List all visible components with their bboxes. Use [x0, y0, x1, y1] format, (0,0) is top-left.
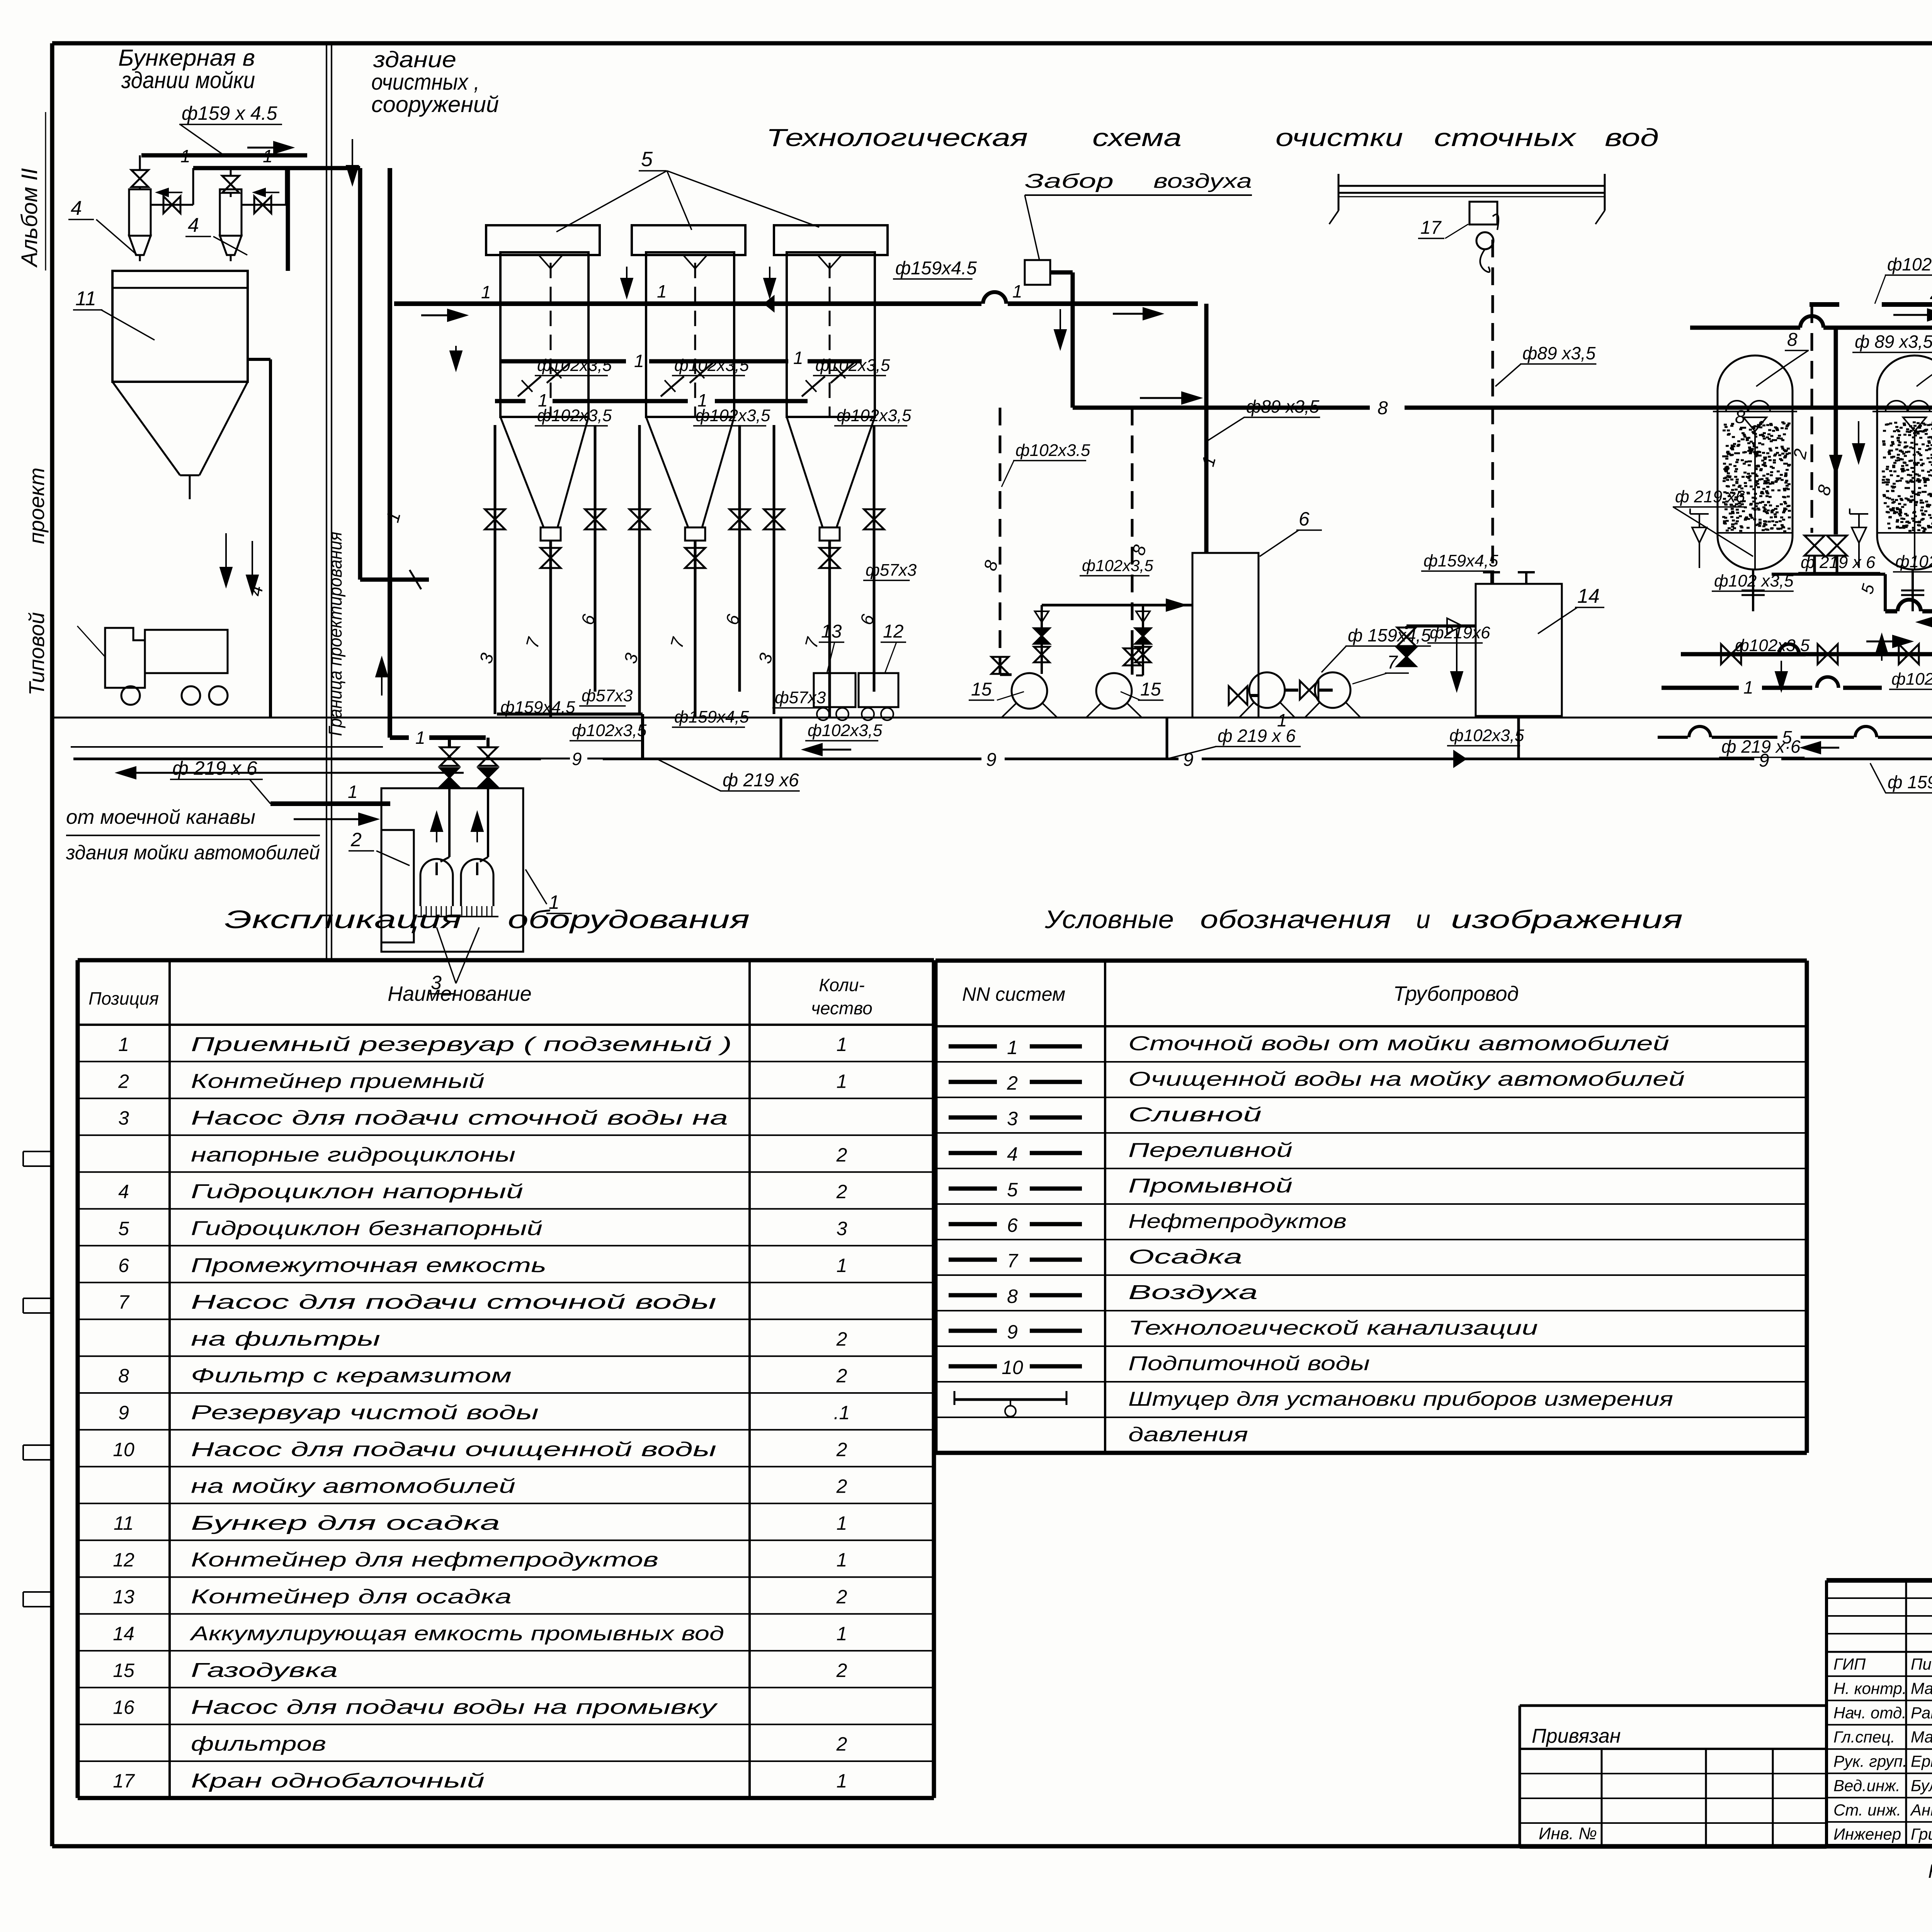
svg-text:2: 2 [836, 1586, 847, 1608]
svg-text:ф102 х3,5: ф102 х3,5 [1714, 571, 1794, 590]
svg-text:17: 17 [1420, 218, 1442, 238]
svg-text:Сточной воды от мойки авто: Сточной воды от мойки автомобилей [1128, 1032, 1669, 1055]
svg-text:13: 13 [821, 621, 842, 642]
svg-text:1: 1 [415, 728, 425, 748]
svg-text:1: 1 [793, 348, 803, 368]
svg-text:1: 1 [263, 146, 273, 166]
svg-text:Граница проектирования: Граница проектирования [325, 532, 346, 736]
svg-text:2: 2 [836, 1660, 847, 1681]
svg-text:9: 9 [1007, 1321, 1018, 1343]
svg-text:Н. контр.: Н. контр. [1833, 1679, 1907, 1697]
svg-text:оборудования: оборудования [508, 905, 750, 934]
svg-text:4: 4 [71, 197, 82, 219]
svg-text:8: 8 [1007, 1286, 1018, 1307]
svg-text:ф102х3,5: ф102х3,5 [837, 406, 912, 425]
svg-text:ф102х3,5: ф102х3,5 [808, 721, 883, 740]
svg-text:7: 7 [1387, 652, 1398, 673]
svg-text:15: 15 [113, 1660, 134, 1681]
svg-text:очистки: очистки [1276, 124, 1403, 151]
svg-text:Технологической канализации: Технологической канализации [1128, 1317, 1538, 1339]
svg-text:3: 3 [837, 1218, 847, 1240]
svg-text:Вед.инж.: Вед.инж. [1833, 1776, 1900, 1794]
svg-text:ф 219 х6: ф 219 х6 [723, 770, 799, 791]
svg-text:6: 6 [1007, 1214, 1018, 1236]
svg-text:7: 7 [1007, 1250, 1019, 1272]
svg-text:2: 2 [836, 1144, 847, 1166]
svg-text:ГИП: ГИП [1833, 1655, 1866, 1673]
svg-text:ф57х3: ф57х3 [582, 686, 633, 705]
svg-text:7: 7 [118, 1291, 130, 1313]
svg-text:Гринькина: Гринькина [1911, 1825, 1932, 1843]
svg-text:9: 9 [1759, 750, 1769, 771]
svg-text:2: 2 [836, 1181, 847, 1202]
svg-text:ф102х3,5: ф102х3,5 [1449, 726, 1524, 745]
svg-text:ф102 х3,5: ф102 х3,5 [1887, 254, 1932, 274]
svg-text:Экспликация: Экспликация [224, 905, 462, 934]
svg-text:17: 17 [113, 1770, 135, 1792]
svg-text:ф 219 х 6: ф 219 х 6 [1801, 553, 1876, 572]
svg-text:Пивторак: Пивторак [1911, 1655, 1932, 1673]
svg-text:ф102х3.5: ф102х3.5 [1015, 441, 1090, 460]
svg-text:фильтров: фильтров [191, 1733, 326, 1755]
svg-text:Рук. груп.: Рук. груп. [1833, 1752, 1907, 1770]
svg-text:вод: вод [1605, 124, 1659, 151]
svg-text:16: 16 [113, 1696, 134, 1718]
svg-text:проект: проект [24, 468, 49, 544]
svg-text:ф102х3,5: ф102х3,5 [1735, 636, 1810, 655]
svg-text:Подпиточной воды: Подпиточной воды [1128, 1352, 1370, 1375]
svg-text:сточных: сточных [1434, 124, 1577, 151]
svg-text:Осадка: Осадка [1128, 1246, 1242, 1268]
svg-text:Насос для подачи очищенной: Насос для подачи очищенной воды [191, 1438, 716, 1461]
svg-text:Воздуха: Воздуха [1128, 1281, 1258, 1304]
svg-text:Контейнер для осадка: Контейнер для осадка [191, 1586, 512, 1608]
svg-text:1: 1 [118, 1034, 129, 1055]
svg-text:Типовой: Типовой [24, 612, 49, 696]
svg-text:9: 9 [118, 1402, 129, 1423]
svg-text:Трубопровод: Трубопровод [1393, 982, 1519, 1005]
svg-text:11: 11 [75, 287, 96, 310]
svg-text:Инженер: Инженер [1833, 1825, 1901, 1843]
svg-text:Альбом II: Альбом II [17, 168, 42, 268]
svg-text:Марионков: Марионков [1911, 1679, 1932, 1697]
svg-text:2: 2 [118, 1070, 129, 1092]
svg-text:1: 1 [634, 351, 644, 371]
svg-text:Нач. отд.: Нач. отд. [1833, 1704, 1906, 1722]
svg-text:8: 8 [1378, 398, 1388, 418]
svg-text:Гл.спец.: Гл.спец. [1833, 1728, 1895, 1746]
svg-text:Технологическая: Технологическая [766, 124, 1028, 151]
svg-text:ф159 х 4.5: ф159 х 4.5 [182, 102, 277, 124]
svg-text:на мойку автомобилей: на мойку автомобилей [191, 1475, 515, 1498]
svg-text:14: 14 [113, 1623, 134, 1645]
svg-text:и: и [1416, 905, 1430, 934]
svg-text:1: 1 [1743, 677, 1753, 697]
svg-text:Контейнер приемный: Контейнер приемный [191, 1070, 485, 1092]
svg-text:12: 12 [113, 1549, 134, 1571]
svg-text:Условные: Условные [1044, 905, 1174, 934]
svg-text:1: 1 [837, 1512, 847, 1534]
svg-text:Промывной: Промывной [1128, 1175, 1293, 1197]
svg-text:Аккумулирующая емкость промывн: Аккумулирующая емкость промывных вод [189, 1622, 724, 1645]
svg-text:10: 10 [1002, 1357, 1023, 1378]
svg-text:ф102х3,5: ф102х3,5 [815, 356, 890, 375]
svg-text:ф 159 х 4,5: ф 159 х 4,5 [1888, 772, 1932, 792]
svg-text:сооружений: сооружений [371, 92, 499, 117]
svg-text:Забор: Забор [1025, 170, 1114, 192]
svg-text:ф57х3: ф57х3 [866, 561, 917, 580]
svg-text:чество: чество [811, 998, 872, 1018]
svg-text:3: 3 [118, 1107, 129, 1129]
svg-text:ф102 х 3,5: ф102 х 3,5 [1891, 670, 1932, 689]
svg-text:Коли-: Коли- [819, 975, 865, 995]
svg-text:обозначения: обозначения [1200, 905, 1391, 934]
svg-text:от моечной канавы: от моечной канавы [66, 806, 255, 828]
svg-text:Кран однобалочный: Кран однобалочный [191, 1770, 485, 1792]
svg-text:ф219х6: ф219х6 [1430, 623, 1490, 642]
svg-text:5: 5 [1007, 1179, 1018, 1201]
svg-text:Сливной: Сливной [1128, 1104, 1262, 1126]
svg-text:Бункерная в: Бункерная в [118, 45, 255, 71]
svg-text:ф 159х4,5: ф 159х4,5 [1348, 625, 1431, 645]
svg-text:Штуцер для установки приборо: Штуцер для установки приборов измерения [1128, 1388, 1673, 1410]
svg-text:Очищенной воды на мойку ав: Очищенной воды на мойку автомобилей [1128, 1068, 1685, 1090]
svg-text:Приемный резервуар ( подзем: Приемный резервуар ( подземный ) [191, 1033, 732, 1056]
svg-text:здание: здание [373, 47, 456, 72]
svg-text:ф 89 х3,5: ф 89 х3,5 [1855, 332, 1932, 352]
svg-text:Ст. инж.: Ст. инж. [1833, 1801, 1901, 1819]
svg-text:ф159х4,5: ф159х4,5 [1423, 551, 1498, 570]
svg-text:ф159х4,5: ф159х4,5 [500, 698, 575, 717]
svg-text:Насос для подачи сточной в: Насос для подачи сточной воды на [191, 1107, 728, 1129]
svg-text:5: 5 [641, 148, 653, 171]
svg-text:очистных ,: очистных , [371, 70, 480, 95]
svg-text:ф89 х3,5: ф89 х3,5 [1522, 343, 1596, 363]
svg-text:ф89 х3,5: ф89 х3,5 [1246, 396, 1320, 417]
svg-text:Марионков: Марионков [1911, 1728, 1932, 1746]
svg-text:2: 2 [836, 1328, 847, 1350]
svg-text:1: 1 [837, 1255, 847, 1276]
svg-text:1: 1 [180, 146, 190, 166]
svg-text:12: 12 [883, 621, 903, 642]
svg-text:ф102х3,5: ф102х3,5 [696, 406, 770, 425]
svg-text:ф102х3,5: ф102х3,5 [572, 721, 647, 740]
svg-text:2: 2 [1930, 283, 1932, 303]
svg-text:Гидроциклон безнапорный: Гидроциклон безнапорный [191, 1218, 543, 1240]
svg-text:1: 1 [1012, 281, 1022, 301]
svg-text:ф57х3: ф57х3 [775, 688, 826, 707]
svg-text:Контейнер для нефтепродуктов: Контейнер для нефтепродуктов [191, 1549, 658, 1571]
svg-text:1: 1 [1007, 1037, 1018, 1058]
svg-text:Фильтр с керамзитом: Фильтр с керамзитом [191, 1365, 512, 1387]
svg-text:5: 5 [1782, 727, 1792, 747]
svg-text:10: 10 [113, 1439, 134, 1460]
svg-text:здании мойки: здании мойки [121, 67, 255, 93]
svg-text:3: 3 [1007, 1108, 1018, 1129]
svg-text:1: 1 [657, 281, 667, 301]
svg-text:на фильтры: на фильтры [191, 1328, 380, 1350]
svg-text:ф102х3,5: ф102х3,5 [1082, 556, 1153, 575]
svg-text:ф102 х 3,5: ф102 х 3,5 [1895, 552, 1932, 571]
svg-text:2: 2 [836, 1733, 847, 1755]
svg-text:9: 9 [572, 749, 582, 769]
svg-text:Инв. №: Инв. № [1539, 1824, 1597, 1843]
svg-text:Гидроциклон напорный: Гидроциклон напорный [191, 1180, 523, 1203]
svg-text:1: 1 [481, 282, 491, 302]
svg-text:2: 2 [836, 1365, 847, 1387]
svg-text:Насос для подачи сточной в: Насос для подачи сточной воды [191, 1291, 716, 1313]
svg-text:1: 1 [837, 1623, 847, 1645]
svg-text:2: 2 [836, 1439, 847, 1460]
svg-text:9: 9 [986, 750, 997, 770]
svg-text:Привязан: Привязан [1532, 1725, 1621, 1747]
svg-text:Промежуточная емкость: Промежуточная емкость [191, 1254, 546, 1277]
svg-text:4: 4 [1007, 1143, 1018, 1165]
svg-text:ф102х3,5: ф102х3,5 [537, 356, 612, 375]
svg-text:Ермакова: Ермакова [1911, 1752, 1932, 1770]
svg-text:NN систем: NN систем [962, 983, 1065, 1005]
svg-text:ф102х3,5: ф102х3,5 [674, 356, 749, 375]
svg-text:2: 2 [350, 829, 362, 850]
svg-text:6: 6 [118, 1255, 129, 1276]
svg-text:15: 15 [971, 679, 992, 700]
svg-text:ф 219 х 6: ф 219 х 6 [172, 757, 257, 779]
svg-text:Газодувка: Газодувка [191, 1659, 338, 1682]
svg-text:1: 1 [837, 1034, 847, 1055]
svg-text:1: 1 [837, 1770, 847, 1792]
svg-text:ф 219 х6: ф 219 х6 [1675, 487, 1745, 506]
svg-text:8: 8 [1787, 330, 1798, 350]
svg-text:5: 5 [118, 1218, 129, 1240]
svg-text:воздуха: воздуха [1153, 170, 1252, 192]
svg-text:Бункер для осадка: Бункер для осадка [191, 1512, 500, 1534]
svg-text:2: 2 [1007, 1072, 1018, 1094]
svg-text:8: 8 [118, 1365, 129, 1387]
svg-text:1: 1 [348, 782, 358, 802]
svg-text:13: 13 [113, 1586, 134, 1608]
svg-text:ф159х4.5: ф159х4.5 [895, 258, 977, 279]
svg-text:4: 4 [118, 1181, 129, 1202]
svg-text:.1: .1 [834, 1402, 850, 1423]
svg-text:Антоненкова: Антоненкова [1910, 1801, 1932, 1819]
svg-text:Насос для подачи воды на пр: Насос для подачи воды на промывку [191, 1696, 718, 1718]
svg-text:давления: давления [1128, 1423, 1248, 1446]
svg-text:Бульчева: Бульчева [1911, 1776, 1932, 1794]
svg-text:Переливной: Переливной [1128, 1139, 1293, 1162]
svg-text:4: 4 [188, 214, 199, 236]
svg-text:схема: схема [1092, 124, 1182, 151]
svg-text:здания мойки автомобилей: здания мойки автомобилей [66, 842, 320, 864]
svg-text:напорные гидроциклоны: напорные гидроциклоны [191, 1144, 515, 1166]
svg-text:Ратников: Ратников [1911, 1704, 1932, 1722]
svg-text:Капировал:: Капировал: [1928, 1861, 1932, 1882]
svg-text:11: 11 [114, 1512, 134, 1534]
svg-text:1: 1 [837, 1549, 847, 1571]
svg-text:Резервуар чистой воды: Резервуар чистой воды [191, 1401, 539, 1424]
svg-text:1: 1 [837, 1070, 847, 1092]
svg-text:Позиция: Позиция [88, 988, 159, 1009]
svg-text:изображения: изображения [1451, 905, 1683, 934]
svg-text:Нефтепродуктов: Нефтепродуктов [1128, 1210, 1347, 1233]
svg-text:ф 219 х 6: ф 219 х 6 [1218, 726, 1296, 746]
svg-text:ф102х3,5: ф102х3,5 [537, 406, 612, 425]
svg-text:Наименование: Наименование [388, 982, 532, 1005]
svg-text:6: 6 [1299, 508, 1310, 530]
svg-text:15: 15 [1140, 679, 1161, 700]
svg-text:14: 14 [1577, 585, 1600, 607]
svg-text:2: 2 [836, 1476, 847, 1497]
